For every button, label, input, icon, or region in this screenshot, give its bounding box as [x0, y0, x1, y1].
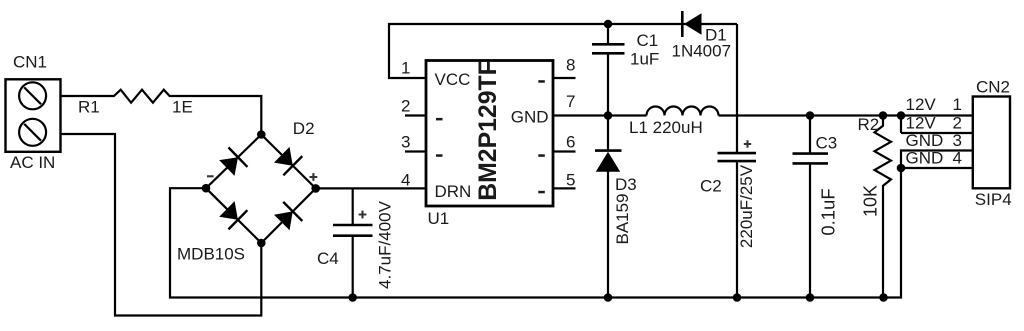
svg-text:D2: D2	[293, 119, 315, 138]
svg-text:2: 2	[401, 96, 410, 115]
svg-text:1: 1	[401, 59, 410, 78]
svg-text:C1: C1	[637, 31, 659, 50]
svg-text:GND: GND	[906, 131, 944, 150]
svg-text:3: 3	[401, 133, 410, 152]
svg-text:220uF/25V: 220uF/25V	[737, 164, 756, 248]
svg-text:BA159: BA159	[613, 193, 632, 244]
svg-text:1E: 1E	[172, 98, 193, 117]
svg-text:SIP4: SIP4	[975, 190, 1012, 209]
svg-text:6: 6	[566, 133, 575, 152]
svg-text:R1: R1	[78, 98, 100, 117]
svg-text:BM2P129TF: BM2P129TF	[475, 60, 502, 201]
svg-text:12V: 12V	[906, 113, 937, 132]
svg-text:C3: C3	[816, 134, 838, 153]
svg-text:4: 4	[953, 148, 962, 167]
svg-text:5: 5	[566, 171, 575, 190]
svg-text:1: 1	[953, 95, 962, 114]
svg-text:GND: GND	[906, 148, 944, 167]
svg-text:0.1uF: 0.1uF	[818, 188, 839, 235]
svg-text:VCC: VCC	[435, 70, 471, 89]
svg-text:U1: U1	[428, 209, 450, 228]
svg-text:3: 3	[953, 131, 962, 150]
svg-text:CN2: CN2	[976, 78, 1010, 97]
svg-text:C4: C4	[317, 249, 339, 268]
svg-text:1N4007: 1N4007	[672, 42, 732, 61]
svg-text:D3: D3	[615, 175, 637, 194]
svg-text:AC IN: AC IN	[10, 153, 55, 172]
svg-text:R2: R2	[858, 115, 880, 134]
svg-text:10K: 10K	[861, 185, 881, 217]
svg-text:DRN: DRN	[435, 182, 472, 201]
svg-text:L1 220uH: L1 220uH	[629, 118, 703, 137]
svg-text:1uF: 1uF	[630, 50, 659, 69]
svg-text:4.7uF/400V: 4.7uF/400V	[376, 200, 395, 289]
svg-text:12V: 12V	[906, 95, 937, 114]
svg-text:2: 2	[953, 113, 962, 132]
svg-text:C2: C2	[700, 177, 722, 196]
svg-text:4: 4	[401, 171, 410, 190]
svg-text:CN1: CN1	[13, 53, 47, 72]
svg-text:GND: GND	[511, 107, 549, 126]
svg-text:MDB10S: MDB10S	[177, 245, 245, 264]
svg-text:7: 7	[566, 92, 575, 111]
svg-text:8: 8	[566, 56, 575, 75]
